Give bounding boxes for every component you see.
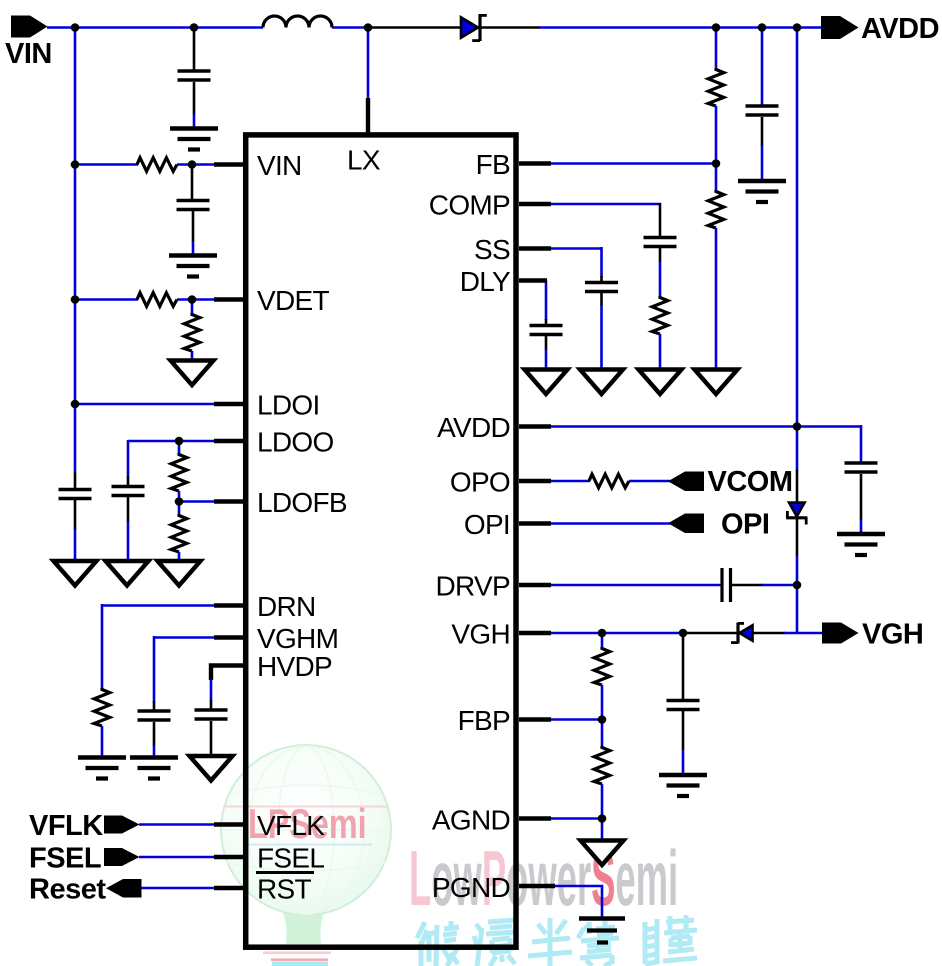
ground (COMP, open triangle) <box>639 370 682 395</box>
svg-text:VCOM: VCOM <box>708 466 793 498</box>
svg-text:DLY: DLY <box>460 266 511 297</box>
wire LDOO row <box>128 440 216 443</box>
terminal VFLK <box>29 810 140 842</box>
watermark text: chinese characters (stroke approximation) <box>417 915 697 966</box>
wire VDET row rail-to-resistor <box>75 298 138 301</box>
svg-text:PGND: PGND <box>432 872 510 903</box>
node AVDD rail top <box>793 23 802 32</box>
wire VFLK row <box>139 823 216 826</box>
balloon grid meridians <box>278 746 334 914</box>
svg-text:AGND: AGND <box>432 805 510 836</box>
capacitor C2 (top filter at x194) <box>178 28 211 127</box>
terminal VIN <box>5 16 52 71</box>
pin stub FB <box>519 161 551 165</box>
wire OPO row <box>550 480 590 483</box>
wire AVDD pin row <box>550 425 861 428</box>
resistor R11 (VGH-FBP) <box>594 633 610 720</box>
resistor R5 (LDOFB to ground) <box>171 502 187 562</box>
wire LX vertical <box>367 28 370 99</box>
pin stub AVDD <box>519 424 551 428</box>
svg-text:AVDD: AVDD <box>437 412 510 443</box>
node VDET row rail <box>71 295 80 304</box>
svg-text:LX: LX <box>347 145 381 176</box>
svg-text:VGH: VGH <box>862 619 923 651</box>
capacitor C7 (AVDD filter x762) <box>746 28 779 180</box>
svg-text:FB: FB <box>476 149 510 180</box>
ground (FB divider, open triangle) <box>695 370 738 395</box>
ground (DRN, bar) <box>78 758 126 779</box>
svg-text:VFLK: VFLK <box>29 810 103 842</box>
node junction dots <box>71 23 802 823</box>
node LDOFB <box>175 497 184 506</box>
pin stub DRN <box>214 603 243 607</box>
node LX tap <box>364 23 373 32</box>
wire LDOO cap branch <box>127 440 130 477</box>
wire R7 to FB node <box>715 106 718 192</box>
pin stub VGHM <box>214 635 243 639</box>
resistor R4 (LDOO-LDOFB) <box>171 441 187 502</box>
wire COMP row <box>550 203 661 206</box>
wire OPI row <box>550 522 670 525</box>
wire PGND row <box>553 886 602 917</box>
pin stub SS <box>519 246 551 250</box>
zener diode D3 <box>786 503 807 525</box>
node AVDD row <box>793 422 802 431</box>
node VGH-C13 <box>679 629 688 638</box>
balloon grid parallels <box>230 785 382 795</box>
char ti <box>645 915 697 964</box>
logo blue rule <box>245 844 372 846</box>
node FB <box>712 159 721 168</box>
svg-text:DRVP: DRVP <box>436 571 511 602</box>
pin stub COMP <box>519 202 551 206</box>
node DRVP <box>793 581 802 590</box>
wire VIN top net (terminal to inductor) <box>47 26 263 29</box>
resistor R12 (FBP-AGND) <box>594 720 610 820</box>
inductor L1 <box>263 16 332 27</box>
pin stub OPO <box>519 479 551 483</box>
ground (C7, bar) <box>738 181 786 202</box>
pin stub AGND <box>519 816 551 820</box>
svg-text:VIN: VIN <box>5 38 52 70</box>
wire C1 to ground <box>74 529 77 561</box>
diode D2 (schottky, left) <box>731 623 753 644</box>
ground (AGND, open triangle) <box>581 841 624 866</box>
svg-text:VGH: VGH <box>451 619 510 650</box>
node VIN row rail <box>71 160 80 169</box>
char dao <box>578 920 619 966</box>
ground (C1, open triangle) <box>54 561 97 586</box>
resistor R9 (COMP) <box>652 296 668 334</box>
svg-text:Reset: Reset <box>29 874 106 906</box>
wire DRN vertical <box>101 604 104 688</box>
watermark: LowPowerSemi balloon logo <box>221 745 391 966</box>
svg-text:SS: SS <box>474 234 510 265</box>
resistor R6 (DRN) <box>94 688 110 726</box>
svg-text:RST: RST <box>257 874 311 905</box>
terminal OPI <box>668 509 769 541</box>
wire D2 to VGH terminal <box>752 632 785 635</box>
pin stub RST <box>214 886 243 890</box>
svg-text:LDOO: LDOO <box>257 427 334 458</box>
node FBP <box>598 715 607 724</box>
balloon circle <box>221 745 391 915</box>
char ban <box>528 918 572 966</box>
balloon neck <box>268 890 339 944</box>
IC U1 body <box>246 135 516 947</box>
capacitor C11 (AVDD right) <box>845 425 878 533</box>
ground (DLY, open triangle) <box>525 370 568 395</box>
capacitor C5 (VGHM) <box>138 701 171 757</box>
wire LDOI row <box>75 403 216 406</box>
node FB divider top <box>712 23 721 32</box>
pin stub PGND <box>519 884 555 888</box>
wire R10 to VCOM terminal <box>629 480 670 483</box>
char yuan <box>474 920 518 966</box>
svg-text:FBP: FBP <box>458 705 510 736</box>
svg-text:VDET: VDET <box>257 285 329 316</box>
wire zener branch upper <box>796 427 799 472</box>
ground (PGND, bar) <box>579 919 625 943</box>
logo red rule <box>224 806 388 808</box>
pin stub LDOI <box>214 402 243 406</box>
wire SS row <box>550 247 603 250</box>
capacitor C12 (DRVP coupling) <box>722 568 797 602</box>
wire R9 to ground <box>659 334 662 370</box>
wire left VIN rail <box>74 28 77 473</box>
wire LDOFB row <box>179 500 216 503</box>
terminal FSEL <box>29 843 140 875</box>
ground (SS, open triangle) <box>580 370 623 395</box>
resistor R1 (VIN row) <box>137 158 177 172</box>
svg-text:VGHM: VGHM <box>257 623 338 654</box>
resistor R7 (FB upper) <box>708 68 724 106</box>
pin stub LDOFB <box>214 499 243 503</box>
wire VIN row rail-to-resistor <box>75 163 138 166</box>
ground (C13, bar) <box>659 775 707 796</box>
wire VDET row resistor-to-pin <box>177 298 216 301</box>
capacitor C13 (VGH) <box>667 633 700 774</box>
svg-text:OPO: OPO <box>450 467 510 498</box>
node VIN rail top <box>71 23 80 32</box>
capacitor C1 (input cap on rail) <box>59 472 92 530</box>
wire inductor to LX junction <box>332 26 368 29</box>
node C2 tap <box>190 23 199 32</box>
wire FBP row <box>550 718 602 721</box>
wire diode D1 to AVDD net (black lead) <box>481 26 540 29</box>
svg-text:LDOFB: LDOFB <box>257 487 347 518</box>
wire zener branch lower <box>796 519 799 556</box>
ground (HVDP, open triangle) <box>190 756 233 781</box>
diode D1 (schottky, right) <box>461 14 487 41</box>
pin label RST with overline <box>256 873 314 905</box>
capacitor C8 (COMP) <box>644 203 677 296</box>
pin stub VGH <box>519 631 551 635</box>
node VIN pin <box>188 160 197 169</box>
wire FB divider rail top <box>715 28 718 69</box>
svg-text:COMP: COMP <box>429 190 510 221</box>
ground (C4, open triangle) <box>106 561 149 586</box>
resistor R8 (FB lower) <box>708 190 724 228</box>
pin stub FSEL <box>214 855 243 859</box>
wire LX junction to diode D1 (black) <box>366 26 460 29</box>
capacitor C10 (DLY) <box>530 319 563 370</box>
ground (C2, bar) <box>170 129 218 150</box>
node LDOO <box>175 437 184 446</box>
ground (C11, bar) <box>837 534 885 555</box>
wire DLY bend <box>545 281 548 321</box>
wire VGHM vertical <box>153 636 156 702</box>
svg-text:LDOI: LDOI <box>257 390 320 421</box>
wire DRVP row <box>550 584 721 587</box>
wire FB row <box>550 162 717 165</box>
svg-text:FSEL: FSEL <box>29 843 101 875</box>
capacitor C6 (HVDP) <box>195 679 228 756</box>
pin stub OPI <box>519 521 551 525</box>
ground (VGHM, bar) <box>130 758 178 779</box>
pin stub LX <box>366 98 370 136</box>
terminal VCOM <box>668 466 793 498</box>
pin stub VDET <box>214 297 243 301</box>
balloon basket stripes <box>263 952 331 955</box>
svg-text:VIN: VIN <box>257 150 302 181</box>
capacitor C4 (LDOO) <box>112 476 145 561</box>
pin stub DLY <box>519 278 547 282</box>
wire VGH row <box>550 632 684 635</box>
wire FSEL row <box>139 856 216 859</box>
resistor R3 (VDET to ground) <box>184 302 200 361</box>
svg-text:AVDD: AVDD <box>861 13 939 45</box>
char wei <box>417 921 459 966</box>
svg-text:HVDP: HVDP <box>257 651 332 682</box>
wire VGHM row <box>154 636 216 639</box>
capacitor C9 (SS) <box>585 247 618 370</box>
resistor R2 (VDET row) <box>137 293 177 307</box>
wire AGND row <box>550 817 602 820</box>
wire DRN row <box>102 604 216 607</box>
pin stub FBP <box>519 717 551 721</box>
svg-text:OPI: OPI <box>721 509 769 541</box>
svg-text:OPI: OPI <box>464 509 510 540</box>
wire R8 to ground <box>715 228 718 370</box>
wire R6 to ground <box>101 726 104 757</box>
node AGND <box>598 814 607 823</box>
wire AGND to ground <box>601 819 604 842</box>
ground (VDET divider, open triangle) <box>171 361 214 386</box>
terminal AVDD <box>821 13 939 45</box>
svg-text:VFLK: VFLK <box>257 810 325 841</box>
terminal VGH <box>822 619 923 651</box>
node VDET pin <box>188 295 197 304</box>
pin stub LDOO <box>214 439 243 443</box>
wire VIN row resistor-to-pin <box>177 163 216 166</box>
wire VGH to diode D2 (black) <box>683 632 737 635</box>
wire AVDD top net (blue) <box>539 26 822 29</box>
node C7 tap <box>758 23 767 32</box>
pin stub DRVP <box>519 583 551 587</box>
pin stub HVDP (black bend) <box>211 666 243 681</box>
node VGH-R11 <box>598 629 607 638</box>
capacitor C3 (VIN pin filter) <box>177 167 210 254</box>
pin stub VIN <box>214 162 243 166</box>
node LDOI row rail <box>71 400 80 409</box>
wire AVDD right rail (x797 top) <box>796 28 799 428</box>
pin stub VFLK <box>214 822 243 826</box>
terminal Reset <box>29 874 142 906</box>
ground (C3, bar) <box>169 256 217 277</box>
svg-text:DRN: DRN <box>257 591 316 622</box>
resistor R10 (OPO) <box>589 474 629 488</box>
ground (R5, open triangle) <box>158 561 201 586</box>
svg-text:FSEL: FSEL <box>257 843 324 874</box>
wire RST row <box>140 887 216 890</box>
